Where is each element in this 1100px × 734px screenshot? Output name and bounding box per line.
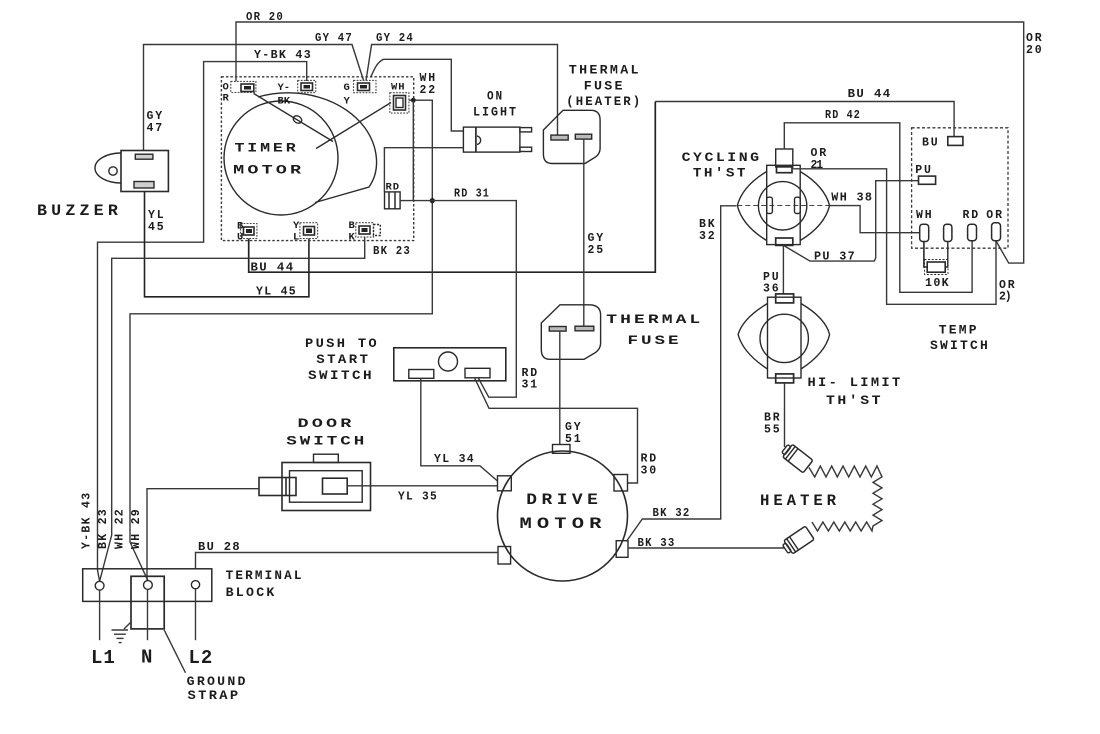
svg-text:TH'ST: TH'ST (693, 166, 748, 181)
svg-text:R: R (223, 93, 230, 105)
svg-text:WH 29: WH 29 (130, 508, 143, 549)
svg-text:SWITCH: SWITCH (286, 434, 367, 449)
wire BK 23 (100, 237, 365, 581)
label DRIVE MOTOR (520, 491, 607, 533)
svg-text:31: 31 (522, 379, 539, 392)
svg-text:25: 25 (588, 244, 605, 257)
junction dot WH22/box (411, 98, 416, 103)
svg-text:WH: WH (916, 209, 933, 222)
svg-text:47: 47 (147, 122, 164, 135)
timer terminal OR (223, 81, 256, 104)
svg-text:THERMAL: THERMAL (606, 312, 703, 327)
label HI- LIMIT TH'ST (808, 375, 903, 408)
svg-text:L1: L1 (91, 647, 116, 669)
svg-text:PUSH TO: PUSH TO (305, 336, 379, 351)
svg-text:BU 44: BU 44 (251, 262, 295, 275)
svg-text:BK 23: BK 23 (97, 508, 110, 549)
svg-text:GROUND: GROUND (187, 674, 248, 689)
wire GY 24 (366, 45, 558, 136)
svg-text:ON: ON (487, 89, 504, 104)
svg-text:SWITCH: SWITCH (930, 338, 990, 353)
thermal fuse (heater) body (543, 110, 600, 163)
timer hand from OR (254, 94, 333, 142)
door switch (259, 454, 371, 510)
thermal fuse 2 body (541, 305, 600, 360)
thermal fuse (heater) right terminal (575, 134, 591, 139)
svg-text:21: 21 (811, 159, 825, 172)
timer hand from WH (316, 103, 391, 149)
svg-text:GY 24: GY 24 (376, 32, 414, 45)
svg-text:WH 22: WH 22 (114, 508, 127, 549)
svg-text:Y-: Y- (278, 82, 291, 94)
svg-text:L: L (293, 232, 299, 244)
svg-text:MOTOR: MOTOR (233, 163, 304, 178)
label CYCLING TH'ST (682, 150, 762, 181)
timer hand knob (292, 114, 303, 124)
wire GY 51 (559, 331, 561, 444)
temp switch RD terminal (968, 224, 977, 241)
label WH 22 (420, 72, 437, 97)
svg-text:BU 28: BU 28 (198, 541, 241, 554)
svg-text:BU: BU (922, 137, 939, 150)
svg-text:Y-BK 43: Y-BK 43 (254, 49, 312, 62)
svg-text:Y-BK 43: Y-BK 43 (81, 492, 94, 549)
label OR 21 (below OR terminal) (999, 279, 1016, 304)
wire OR 20 (236, 22, 1024, 263)
label PU 36 (763, 271, 780, 296)
timer terminal YL (293, 220, 318, 244)
label BK 32 (stacked) (699, 218, 716, 243)
label GROUND STRAP (187, 674, 248, 703)
label ON LIGHT (473, 89, 518, 120)
svg-text:STRAP: STRAP (188, 688, 241, 703)
svg-text:BUZZER: BUZZER (37, 202, 122, 220)
wire lamp to RD terminal (384, 148, 463, 192)
timer terminal BU (237, 221, 257, 244)
svg-text:THERMAL: THERMAL (569, 63, 641, 78)
svg-text:10K: 10K (925, 277, 950, 290)
svg-text:DRIVE: DRIVE (526, 491, 602, 509)
buzzer (95, 151, 168, 192)
wire YL 45 (145, 192, 309, 297)
drive motor (498, 445, 629, 582)
ground strap leader (164, 630, 185, 673)
svg-text:RD 31: RD 31 (454, 188, 490, 201)
timer terminal WH (390, 82, 409, 114)
svg-text:BK: BK (278, 96, 291, 108)
svg-text:YL 45: YL 45 (256, 286, 297, 299)
wire BR 55 (784, 383, 786, 447)
svg-text:SWITCH: SWITCH (308, 368, 374, 383)
svg-text:55: 55 (764, 424, 781, 437)
wire RD 30 (475, 378, 638, 483)
svg-text:HI- LIMIT: HI- LIMIT (808, 375, 903, 390)
wire L2 lead (195, 589, 197, 640)
junction dot RD31 (430, 198, 435, 203)
svg-text:YL 34: YL 34 (434, 453, 475, 466)
svg-text:B: B (349, 220, 356, 232)
label OR 20 (right side) (1026, 32, 1043, 57)
wire to ON LIGHT (top) (371, 59, 464, 131)
label OR 21 (811, 147, 828, 172)
wire RD 42 (784, 123, 972, 292)
timer motor box (221, 77, 413, 241)
timer terminal RD (385, 182, 401, 209)
thermal fuse 2 left terminal (549, 327, 566, 332)
wire YL 34 (421, 378, 498, 481)
label RD 31 (stacked near switch) (522, 367, 539, 392)
svg-text:RD 42: RD 42 (825, 109, 861, 122)
label RD 30 (641, 453, 658, 478)
svg-text:Y: Y (344, 96, 351, 108)
svg-text:FUSE: FUSE (628, 333, 682, 348)
timer terminal G Y (344, 80, 377, 107)
svg-text:45: 45 (148, 221, 165, 234)
svg-text:2): 2) (999, 291, 1013, 304)
wire YL 35 (347, 485, 497, 487)
wire BU 44 (top) (655, 102, 954, 137)
svg-text:PU 37: PU 37 (814, 251, 856, 264)
on light lamp (463, 127, 531, 152)
svg-text:TIMER: TIMER (235, 141, 299, 156)
wire BK 32 (626, 206, 736, 542)
timer terminal Y-BK (278, 80, 316, 107)
wire Y-BK 43 (top loop) (98, 62, 307, 582)
temp switch BU terminal (948, 137, 963, 146)
svg-text:Y: Y (293, 220, 300, 232)
svg-text:TERMINAL: TERMINAL (226, 568, 304, 583)
wire PU 37 (785, 181, 919, 261)
heater connector lower (781, 526, 814, 556)
ground strap box (131, 576, 164, 629)
temp switch WH terminal 2 (944, 224, 952, 241)
svg-text:FUSE: FUSE (584, 79, 625, 94)
svg-text:GY 47: GY 47 (315, 32, 353, 45)
svg-text:BLOCK: BLOCK (226, 585, 277, 600)
svg-text:32: 32 (699, 230, 716, 243)
svg-text:20: 20 (1026, 44, 1043, 57)
label BR 55 (764, 412, 781, 437)
svg-text:TEMP: TEMP (939, 323, 979, 338)
wire N lead (147, 589, 149, 640)
svg-text:BK 23: BK 23 (373, 245, 411, 258)
svg-text:K: K (349, 232, 356, 244)
ground symbol (112, 622, 132, 643)
label THERMAL FUSE (HEATER) (566, 63, 642, 110)
thermal fuse (heater) left terminal (551, 135, 568, 140)
heater element zigzag (809, 466, 882, 531)
svg-text:(HEATER): (HEATER) (566, 94, 642, 109)
10K resistor (924, 242, 948, 275)
thermal fuse 2 right terminal (575, 326, 594, 331)
svg-text:L2: L2 (189, 647, 214, 669)
svg-text:WH 38: WH 38 (831, 192, 873, 205)
timer motor circle (224, 101, 338, 215)
cycling thermostat (737, 149, 829, 245)
svg-text:U: U (237, 232, 243, 244)
svg-text:RD: RD (386, 182, 401, 194)
wire GY 47 (144, 45, 364, 151)
svg-text:30: 30 (641, 465, 658, 478)
push to start switch (394, 348, 506, 381)
label GY 51 (565, 421, 582, 446)
label THERMAL FUSE (606, 312, 703, 348)
svg-text:BU 44: BU 44 (848, 88, 892, 101)
label TERMINAL BLOCK (226, 568, 304, 600)
svg-text:WH: WH (391, 82, 406, 94)
heater connector upper (780, 442, 813, 473)
wire BU 28 (196, 553, 499, 569)
svg-text:LIGHT: LIGHT (473, 105, 518, 120)
svg-text:22: 22 (420, 84, 437, 97)
temp switch OR terminal (992, 223, 1001, 241)
svg-text:START: START (316, 352, 370, 367)
svg-text:PU: PU (915, 164, 932, 177)
wire WH 29 (147, 489, 259, 581)
wire RD 31 (400, 201, 516, 398)
svg-text:BK 32: BK 32 (653, 507, 691, 520)
label TIMER MOTOR (233, 141, 304, 178)
temp switch box (912, 128, 1008, 248)
terminal block (83, 569, 212, 602)
svg-text:MOTOR: MOTOR (520, 515, 607, 533)
svg-text:YL 35: YL 35 (398, 491, 438, 504)
hi-limit thermostat (738, 294, 830, 383)
wire L1 lead (99, 590, 101, 640)
label GY 25 (588, 232, 605, 257)
label GY 47 (stacked, buzzer) (147, 110, 164, 135)
temp switch PU terminal (919, 176, 936, 184)
svg-text:DOOR: DOOR (298, 416, 355, 431)
label YL 45 (stacked) (148, 209, 165, 234)
temp switch WH terminal 1 (920, 224, 929, 241)
label TEMP SWITCH (930, 323, 990, 354)
svg-text:OR 20: OR 20 (246, 11, 284, 24)
svg-text:G: G (344, 82, 350, 94)
wire BU 44 (timer loop) (249, 102, 656, 273)
svg-text:RD: RD (963, 209, 980, 222)
label DOOR SWITCH (286, 416, 367, 449)
wire BK 33 (628, 547, 784, 549)
label WH RD OR (temp) (916, 209, 1003, 222)
wire PU 36 (782, 245, 784, 294)
timer cam outline (258, 93, 377, 203)
wire OR 21 (793, 169, 996, 304)
svg-text:BK 33: BK 33 (638, 537, 676, 550)
svg-text:CYCLING: CYCLING (682, 150, 762, 165)
svg-text:OR: OR (986, 209, 1003, 222)
svg-text:HEATER: HEATER (760, 492, 840, 510)
wire WH 22 (130, 100, 432, 580)
wire WH 38 (830, 206, 920, 233)
label PUSH TO START SWITCH (305, 336, 379, 383)
wire WH22 box edge drop (412, 100, 414, 200)
timer terminal BK (349, 220, 381, 244)
svg-text:N: N (141, 647, 152, 669)
wire GY 25 (583, 139, 585, 326)
svg-text:TH'ST: TH'ST (826, 393, 883, 408)
